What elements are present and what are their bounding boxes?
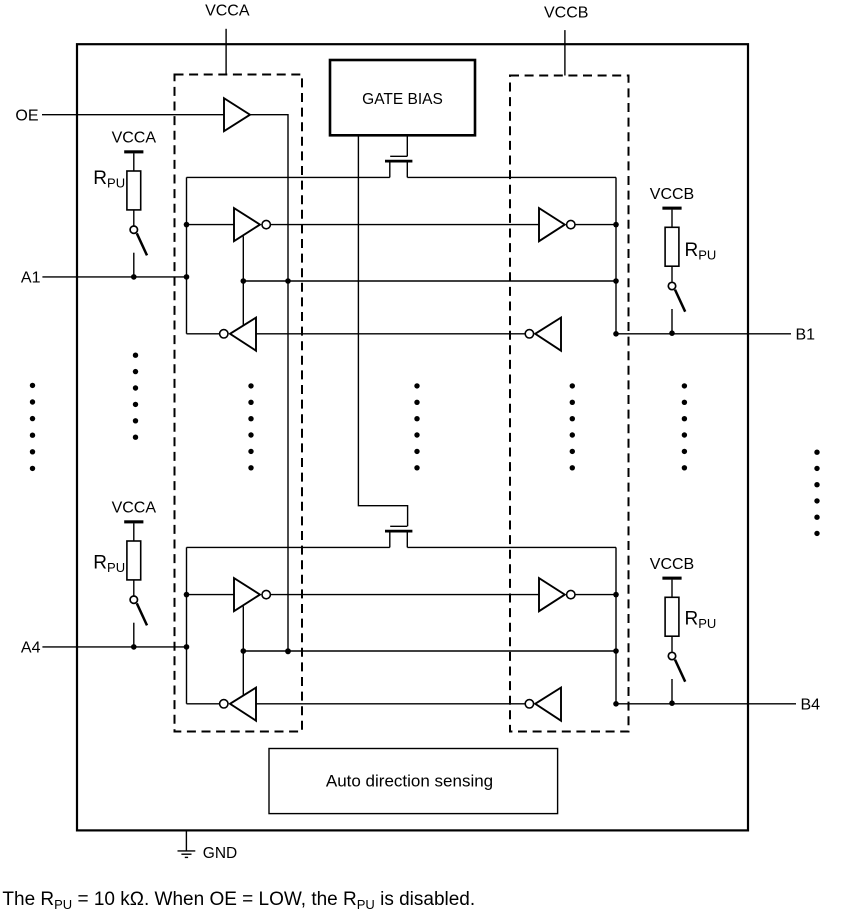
wire pass transistor to B1 (right segment) bbox=[407, 176, 616, 178]
node switch junction B4 bbox=[669, 700, 675, 706]
label VCCA (pull-up A4) bbox=[112, 500, 157, 517]
svg-text:VCCB: VCCB bbox=[650, 556, 694, 573]
continuation dots column B inverters bbox=[570, 383, 575, 470]
transistor Q1 channel bar bbox=[385, 160, 412, 163]
inverter A1 forward (A to B) bbox=[234, 208, 270, 241]
node enable junction A4 bbox=[241, 648, 247, 654]
label B4 bbox=[801, 697, 821, 714]
label VCCA (pull-up A1) bbox=[112, 130, 157, 147]
svg-text:VCCA: VCCA bbox=[112, 500, 157, 517]
wire VCCA supply drop bbox=[225, 29, 227, 75]
node B1 junction (fwd output) bbox=[613, 222, 619, 228]
transistor Q1 left leg bbox=[389, 161, 391, 177]
inverter A4 reverse (B to A) bbox=[220, 688, 256, 721]
label RPU value (B1) bbox=[685, 240, 717, 262]
svg-text:The RPU = 10 kΩ. When OE = LOW: The RPU = 10 kΩ. When OE = LOW, the RPU … bbox=[2, 889, 475, 912]
wire A1 buffer input bbox=[187, 224, 235, 226]
wire bar to resistor bbox=[671, 210, 673, 228]
ground symbol bbox=[178, 851, 196, 858]
label A1 bbox=[21, 270, 41, 287]
node enable junction A1 bbox=[241, 278, 247, 284]
label A4 bbox=[21, 640, 41, 657]
svg-text:GND: GND bbox=[203, 845, 237, 862]
switch contact circle B4 bbox=[668, 652, 675, 659]
label RPU value (A4) bbox=[93, 553, 125, 576]
continuation dots column far right (B pins) bbox=[814, 450, 819, 537]
wire A4 forward buffer output to B-side bbox=[271, 594, 540, 596]
wire GND stem bbox=[185, 830, 187, 850]
svg-text:A1: A1 bbox=[21, 270, 41, 287]
wire A4 reverse buffer output bbox=[187, 703, 220, 705]
wire B to A reverse path channel 1 bbox=[256, 333, 525, 335]
block Auto direction sensing bbox=[269, 749, 558, 814]
inverter A4 forward (A to B) bbox=[234, 578, 270, 611]
svg-text:RPU: RPU bbox=[685, 609, 717, 632]
continuation dots column far left (A pins) bbox=[30, 383, 35, 471]
wire enable stub between A1 inverters bbox=[242, 236, 244, 330]
label VCCB (pull-up B1) bbox=[650, 186, 694, 203]
wire bar to resistor bbox=[671, 580, 673, 598]
label OE bbox=[15, 108, 38, 125]
switch contact circle B1 bbox=[668, 282, 675, 289]
wire GATE BIAS to Q2 gate bbox=[358, 135, 407, 526]
svg-text:GATE BIAS: GATE BIAS bbox=[362, 91, 443, 108]
wire switch to pin row bbox=[671, 309, 673, 333]
power rail bar VCCB bbox=[662, 577, 681, 580]
switch blade A1 bbox=[137, 233, 147, 255]
node OE junction channel 4 bbox=[285, 648, 291, 654]
wire A4 buffer input bbox=[187, 594, 235, 596]
wire OE input bbox=[42, 114, 224, 116]
svg-text:VCCA: VCCA bbox=[205, 3, 250, 20]
power rail bar VCCA bbox=[124, 150, 143, 153]
node switch junction A4 bbox=[131, 644, 137, 650]
node A1 junction (buffer input) bbox=[184, 222, 190, 228]
resistor RPU B4 bbox=[665, 597, 679, 636]
wire B to A reverse path channel 4 bbox=[256, 703, 525, 705]
node B4 junction (pin) bbox=[613, 701, 619, 707]
wire OE/enable mid row channel 1 bbox=[243, 280, 616, 282]
power rail bar VCCA bbox=[124, 520, 143, 523]
resistor RPU A1 bbox=[127, 171, 141, 210]
dashed box VCCB domain bbox=[510, 76, 629, 732]
transistor Q1 gate plate bbox=[390, 155, 407, 157]
transistor Q1 right leg bbox=[406, 161, 408, 177]
wire B1 net vertical bbox=[615, 177, 617, 333]
wire VCCB supply drop bbox=[564, 30, 566, 75]
label VCCA (top) bbox=[205, 3, 250, 20]
wire A1 reverse buffer output bbox=[187, 333, 220, 335]
label RPU value (A1) bbox=[93, 168, 125, 191]
wire A1 net vertical bbox=[186, 177, 188, 333]
node B4 junction (fwd output) bbox=[613, 592, 619, 598]
wire resistor to switch bbox=[671, 636, 673, 652]
wire B1 forward buffer output bbox=[575, 224, 616, 226]
wire A4 to pass transistor (left segment) bbox=[187, 546, 390, 548]
svg-text:RPU: RPU bbox=[685, 240, 717, 262]
switch contact circle A4 bbox=[130, 596, 137, 603]
label B1 bbox=[796, 327, 816, 344]
svg-text:Auto direction sensing: Auto direction sensing bbox=[326, 772, 493, 791]
label RPU value (B4) bbox=[685, 609, 717, 632]
node A4 junction (buffer input) bbox=[184, 592, 190, 598]
wire pass transistor to B4 (right segment) bbox=[407, 546, 616, 548]
wire resistor to switch bbox=[133, 210, 135, 226]
label VCCB (top) bbox=[544, 5, 588, 22]
power rail bar VCCB bbox=[662, 207, 681, 210]
buffer OE (non-inverting) bbox=[224, 98, 250, 131]
IC outer boundary box bbox=[77, 44, 748, 830]
node A4 junction (pin) bbox=[184, 644, 190, 650]
node switch junction A1 bbox=[131, 274, 137, 280]
inverter A1 reverse (B to A) bbox=[220, 318, 256, 351]
wire A1 forward buffer output to B-side bbox=[271, 224, 540, 226]
switch contact circle A1 bbox=[130, 226, 137, 233]
node switch junction B1 bbox=[669, 330, 675, 336]
wire switch to pin row bbox=[133, 623, 135, 647]
wire pin B4 bbox=[616, 703, 796, 705]
wire A4 net vertical bbox=[186, 547, 188, 703]
wire OE/enable mid row channel 4 bbox=[243, 650, 616, 652]
transistor Q2 right leg bbox=[406, 531, 408, 547]
wire bar to resistor bbox=[133, 523, 135, 541]
inverter B1 forward bbox=[539, 208, 575, 241]
continuation dots column A inverters bbox=[248, 383, 253, 470]
wire pin B1 bbox=[616, 333, 791, 335]
svg-text:RPU: RPU bbox=[93, 553, 125, 576]
continuation dots column B pull-ups bbox=[682, 383, 687, 470]
node OE end junction bbox=[285, 649, 291, 655]
node B1 junction (pin) bbox=[613, 331, 619, 337]
wire B4 net vertical bbox=[615, 547, 617, 703]
inverter B4 reverse bbox=[525, 688, 561, 721]
wire OE buffer output bbox=[250, 115, 288, 652]
wire enable stub between A4 inverters bbox=[242, 606, 244, 700]
resistor RPU A4 bbox=[127, 541, 141, 580]
node OE junction channel 1 bbox=[285, 278, 291, 284]
switch blade B1 bbox=[675, 290, 685, 312]
svg-text:VCCB: VCCB bbox=[650, 186, 694, 203]
label VCCB (pull-up B4) bbox=[650, 556, 694, 573]
transistor Q2 gate plate bbox=[390, 525, 407, 527]
svg-text:A4: A4 bbox=[21, 640, 41, 657]
transistor Q2 left leg bbox=[389, 531, 391, 547]
wire switch to pin row bbox=[671, 679, 673, 703]
wire B4 forward buffer output bbox=[575, 594, 616, 596]
wire pin A1 bbox=[42, 276, 186, 278]
svg-text:OE: OE bbox=[15, 108, 38, 125]
wire GATE BIAS to Q1 gate bbox=[406, 135, 408, 156]
wire bar to resistor bbox=[133, 153, 135, 171]
wire pin A4 bbox=[42, 646, 186, 648]
label GND bbox=[203, 845, 237, 862]
continuation dots column A pull-ups bbox=[133, 353, 138, 440]
svg-text:VCCB: VCCB bbox=[544, 5, 588, 22]
switch blade A4 bbox=[137, 603, 147, 625]
node B4 junction (mid) bbox=[613, 648, 619, 654]
svg-text:B4: B4 bbox=[801, 697, 821, 714]
continuation dots column center bbox=[414, 383, 419, 470]
inverter B1 reverse bbox=[525, 318, 561, 351]
svg-text:RPU: RPU bbox=[93, 168, 125, 191]
footnote text RPU note bbox=[2, 889, 475, 912]
inverter B4 forward bbox=[539, 578, 575, 611]
transistor Q2 channel bar bbox=[385, 530, 412, 533]
dashed box VCCA domain bbox=[175, 75, 303, 732]
wire A1 to pass transistor (left segment) bbox=[187, 176, 390, 178]
wire switch to pin row bbox=[133, 253, 135, 277]
wire resistor to switch bbox=[671, 266, 673, 282]
svg-text:VCCA: VCCA bbox=[112, 130, 157, 147]
node A1 junction (pin) bbox=[184, 274, 190, 280]
svg-text:B1: B1 bbox=[796, 327, 816, 344]
resistor RPU B1 bbox=[665, 227, 679, 266]
switch blade B4 bbox=[675, 660, 685, 682]
node B1 junction (mid) bbox=[613, 278, 619, 284]
block GATE BIAS bbox=[330, 60, 475, 135]
wire resistor to switch bbox=[133, 580, 135, 596]
